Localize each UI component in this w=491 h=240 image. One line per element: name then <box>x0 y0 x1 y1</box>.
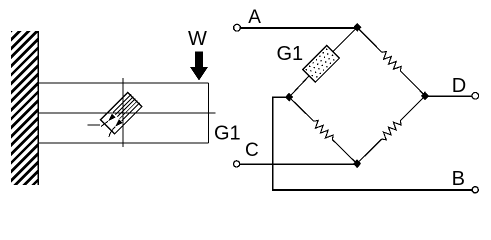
arm: gauge G1 (top-left) wires <box>333 27 357 51</box>
beam neutral axis line <box>38 112 215 114</box>
terminal B <box>472 187 478 193</box>
load arrow W <box>195 52 203 68</box>
resistor arm top-right <box>354 25 427 99</box>
node left <box>285 93 293 102</box>
node top <box>353 23 361 32</box>
svg-text:G1: G1 <box>277 43 304 65</box>
beam top edge <box>38 82 208 84</box>
svg-text:D: D <box>452 75 466 97</box>
node right <box>421 91 429 100</box>
terminal C <box>234 161 240 167</box>
gauge lead stub <box>88 124 101 126</box>
svg-text:A: A <box>248 7 261 28</box>
terminal D <box>472 93 479 100</box>
wire C <box>240 163 357 165</box>
svg-text:B: B <box>452 168 465 190</box>
resistor arm bottom-left <box>287 94 360 166</box>
beam free end edge <box>208 83 210 143</box>
wire A <box>240 27 357 29</box>
wire left node to B rail <box>273 97 472 190</box>
terminal A <box>234 24 241 31</box>
node bottom <box>353 159 361 168</box>
resistor arm bottom-right <box>354 93 427 166</box>
wall (fixed support, hatched) <box>8 1 41 219</box>
strain gauge on beam <box>96 92 143 139</box>
cantilever beam <box>38 78 215 147</box>
svg-text:C: C <box>245 140 259 161</box>
svg-text:G1: G1 <box>214 122 241 144</box>
wire D <box>425 95 472 97</box>
gauge G1 in bridge <box>303 45 340 82</box>
svg-text:W: W <box>188 28 207 50</box>
beam centre line <box>122 78 124 147</box>
beam bottom edge <box>38 142 208 144</box>
